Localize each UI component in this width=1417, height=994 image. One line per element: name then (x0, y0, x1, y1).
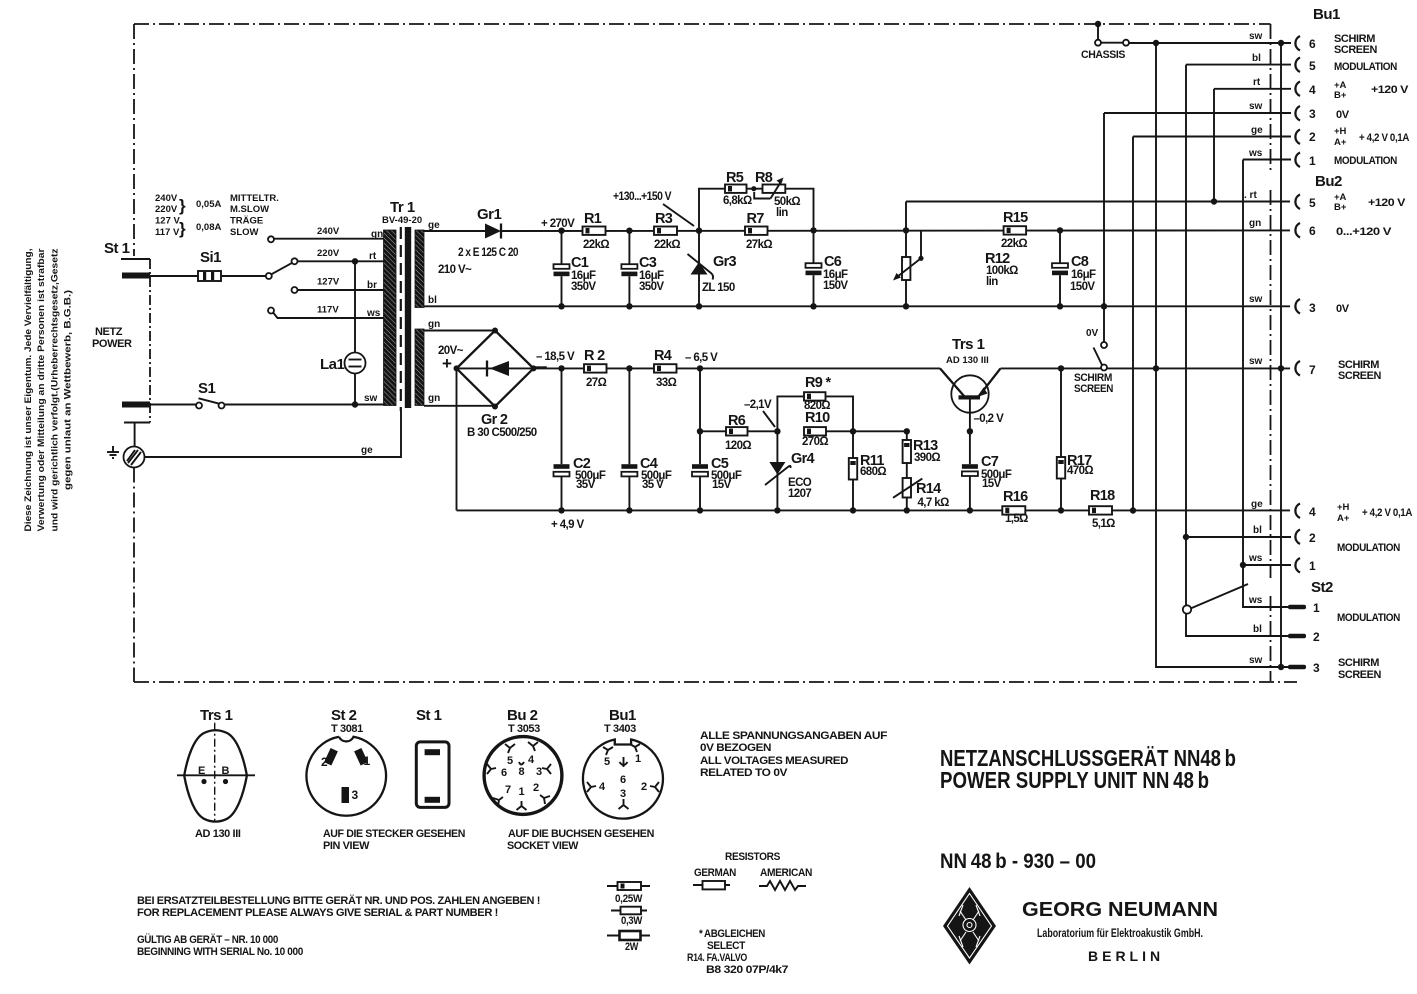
frame top dash-dot border (134, 23, 1271, 25)
svg-text:R14: R14 (916, 481, 941, 497)
svg-text:POWER SUPPLY UNIT NN 48 b: POWER SUPPLY UNIT NN 48 b (940, 767, 1209, 793)
Tr1 secondary winding 20V (415, 329, 424, 406)
svg-text:AD 130 III: AD 130 III (195, 828, 241, 840)
svg-text:bl: bl (1252, 53, 1261, 64)
svg-text:+130...+150 V: +130...+150 V (613, 191, 672, 203)
svg-text:SELECT: SELECT (707, 940, 746, 952)
svg-text:ge: ge (361, 445, 373, 456)
svg-text:Gr 2: Gr 2 (481, 412, 508, 428)
svg-text:ALL VOLTAGES MEASURED: ALL VOLTAGES MEASURED (700, 755, 848, 767)
sw bus vertical (0V) (1103, 113, 1105, 342)
resistor R6 120ohm (697, 428, 703, 434)
svg-text:240V: 240V (317, 226, 340, 237)
svg-text:0V BEZOGEN: 0V BEZOGEN (700, 742, 771, 754)
svg-text:Verwertung oder Mitteilung an: Verwertung oder Mitteilung an dritte Per… (36, 248, 47, 531)
svg-text:– 6,5 V: – 6,5 V (685, 352, 718, 364)
svg-text:NETZ: NETZ (95, 326, 123, 338)
svg-text:6,8kΩ: 6,8kΩ (723, 195, 752, 207)
svg-text:BEGINNING WITH SERIAL No. 1: BEGINNING WITH SERIAL No. 10 000 (137, 946, 303, 958)
svg-text:BEI ERSATZTEILBESTELLUNG BI: BEI ERSATZTEILBESTELLUNG BITTE GERÄT NR.… (137, 894, 540, 907)
svg-text:St2: St2 (1311, 579, 1333, 596)
svg-text:–2,1V: –2,1V (744, 399, 772, 411)
bl bus vertical (1186, 65, 1291, 636)
svg-text:22kΩ: 22kΩ (654, 239, 680, 251)
resistor R13 390ohm (904, 428, 910, 434)
svg-text:MODULATION: MODULATION (1334, 155, 1397, 167)
tap 240V (268, 236, 274, 242)
svg-text:210 V~: 210 V~ (438, 264, 472, 276)
svg-text:R9 *: R9 * (805, 375, 831, 391)
svg-text:R 2: R 2 (584, 348, 605, 364)
svg-text:Gr1: Gr1 (477, 206, 502, 223)
resistor R1 22k (583, 227, 606, 235)
svg-text:470Ω: 470Ω (1067, 465, 1093, 477)
svg-text:0V: 0V (1336, 109, 1350, 121)
svg-text:4: 4 (528, 754, 535, 766)
svg-text:3: 3 (1313, 661, 1320, 675)
svg-text:RELATED TO 0V: RELATED TO 0V (700, 767, 788, 779)
svg-text:ws: ws (366, 308, 381, 319)
svg-text:R18: R18 (1090, 488, 1115, 504)
svg-text:5: 5 (604, 756, 610, 768)
svg-text:3: 3 (1309, 107, 1316, 121)
svg-text:+: + (442, 354, 452, 373)
svg-text:33Ω: 33Ω (656, 377, 677, 389)
Tr1 electrostatic screen (dashed core line) (400, 227, 402, 411)
Neumann logo diamond (943, 887, 996, 965)
svg-text:R8: R8 (755, 170, 773, 186)
svg-text:2: 2 (641, 781, 647, 793)
svg-text:GEORG NEUMANN: GEORG NEUMANN (1022, 899, 1218, 921)
wires 20V secondary to bridge (424, 330, 495, 332)
capacitor C8 (1057, 227, 1063, 233)
svg-text:PIN VIEW: PIN VIEW (323, 840, 370, 852)
rt bus vertical (1213, 89, 1215, 202)
svg-text:+120 V: +120 V (1368, 197, 1406, 209)
svg-text:SCREEN: SCREEN (1334, 44, 1377, 56)
svg-text:Bu 2: Bu 2 (507, 707, 538, 724)
svg-text:}: } (179, 219, 186, 238)
-18,5V rail to R2 (534, 367, 585, 369)
svg-text:8: 8 (519, 766, 525, 778)
svg-text:6: 6 (620, 774, 626, 786)
svg-text:0,08A: 0,08A (196, 222, 221, 233)
svg-text:A+: A+ (1334, 137, 1347, 148)
svg-text:SCREEN: SCREEN (1074, 383, 1113, 395)
svg-text:35V: 35V (576, 479, 596, 491)
wire Bu2 pin7 screen row (1278, 365, 1284, 371)
svg-text:220V: 220V (317, 248, 340, 259)
svg-text:2W: 2W (625, 941, 639, 953)
svg-text:350V: 350V (639, 281, 664, 293)
svg-text:TRÄGE: TRÄGE (230, 216, 263, 227)
svg-text:R10: R10 (805, 410, 830, 426)
wire chassis to Bu1 pin6 (1129, 42, 1291, 44)
svg-text:gegen unlaut an Wettbewerb,: gegen unlaut an Wettbewerb, B.G.B.) (63, 290, 74, 490)
svg-text:15V: 15V (712, 479, 732, 491)
potentiometer R12 100k lin (905, 202, 907, 258)
capacitor C1 (558, 228, 564, 234)
svg-text:SCREEN: SCREEN (1338, 370, 1381, 382)
ground symbol and earth connection (124, 447, 145, 468)
svg-text:POWER: POWER (92, 338, 132, 350)
capacitor C4 (626, 365, 632, 371)
svg-text:3: 3 (1309, 301, 1316, 315)
svg-text:27Ω: 27Ω (586, 377, 607, 389)
svg-text:sw: sw (1249, 101, 1263, 112)
svg-text:und wird gerichtlich verfolgt.: und wird gerichtlich verfolgt.(Urheberre… (50, 248, 61, 531)
svg-text:La1: La1 (320, 356, 345, 373)
svg-text:ZL 150: ZL 150 (702, 282, 735, 294)
svg-text:MODULATION: MODULATION (1337, 542, 1400, 554)
svg-text:NN 48 b - 930 – 00: NN 48 b - 930 – 00 (940, 850, 1096, 873)
svg-text:}: } (179, 196, 186, 215)
svg-text:br: br (367, 280, 377, 291)
svg-text:sw: sw (1249, 294, 1263, 305)
svg-text:Laboratorium für Elektroakusti: Laboratorium für Elektroakustik GmbH. (1037, 928, 1203, 940)
svg-text:R6: R6 (728, 413, 746, 429)
svg-text:lin: lin (776, 207, 788, 219)
zener Gr3 ZL150 (696, 228, 702, 234)
svg-text:St 2: St 2 (331, 707, 357, 724)
svg-text:1: 1 (1313, 601, 1320, 615)
svg-text:C8: C8 (1071, 254, 1089, 270)
svg-text:+ 270V: + 270V (541, 218, 575, 230)
capacitor C2 (558, 365, 564, 371)
resistor R15 22k (1004, 226, 1027, 234)
svg-text:127V: 127V (317, 277, 340, 288)
svg-text:lin: lin (986, 276, 998, 288)
svg-text:0V: 0V (1086, 328, 1099, 339)
svg-text:GERMAN: GERMAN (694, 867, 736, 879)
svg-text:0,25W: 0,25W (615, 893, 643, 905)
svg-text:Tr 1: Tr 1 (390, 199, 415, 216)
svg-text:SCHIRM: SCHIRM (1338, 657, 1379, 669)
svg-text:7: 7 (1309, 363, 1316, 377)
svg-text:1: 1 (635, 753, 641, 765)
frame left dash-dot border lower (133, 468, 135, 683)
svg-text:ALLE SPANNUNGSANGABEN AUF: ALLE SPANNUNGSANGABEN AUF (700, 730, 888, 742)
svg-text:C3: C3 (639, 255, 657, 271)
svg-text:ws: ws (1248, 553, 1263, 564)
svg-text:3: 3 (352, 788, 359, 802)
bridge rectifier Gr2 B30 C500/250 (457, 331, 534, 407)
connector boundary dash-dot St2 (1270, 596, 1272, 681)
svg-text:Trs 1: Trs 1 (952, 336, 985, 353)
svg-text:R14. FA.VALVO: R14. FA.VALVO (687, 952, 748, 964)
svg-text:5: 5 (507, 755, 513, 767)
svg-text:Gr3: Gr3 (713, 254, 737, 270)
wire ge from earth to transformer screen (145, 411, 402, 457)
wire Bu2 pin1 (1243, 564, 1291, 566)
svg-text:2: 2 (1313, 630, 1320, 644)
connector boundary dash-dot Bu2 (1270, 190, 1272, 578)
svg-text:gn: gn (1249, 218, 1261, 229)
svg-text:+ 4,9 V: + 4,9 V (551, 519, 584, 531)
+4,9V rail (457, 509, 1291, 511)
svg-text:AD 130 III: AD 130 III (946, 355, 989, 366)
svg-text:150V: 150V (823, 280, 848, 292)
wire sw to Bu1 pin3 0V (1104, 112, 1291, 114)
svg-text:35 V: 35 V (642, 479, 664, 491)
resistor wattage legend (607, 885, 650, 887)
svg-text:ws: ws (1248, 148, 1263, 159)
svg-text:+ 4,2 V 0,1A: + 4,2 V 0,1A (1362, 507, 1412, 519)
svg-text:117V: 117V (317, 305, 339, 316)
svg-text:sw: sw (1249, 31, 1263, 42)
frame left dash-dot border upper (133, 24, 135, 256)
svg-text:B+: B+ (1334, 202, 1347, 213)
svg-text:127 V: 127 V (155, 216, 180, 227)
svg-text:gn: gn (371, 229, 383, 240)
svg-text:6: 6 (1309, 37, 1316, 51)
svg-text:T 3403: T 3403 (604, 723, 636, 735)
resistor R4 33ohm (654, 364, 677, 372)
wire colour labels right side (1244, 31, 1263, 666)
svg-text:Trs 1: Trs 1 (200, 707, 233, 724)
svg-text:bl: bl (1253, 525, 1262, 536)
svg-text:A+: A+ (1337, 513, 1350, 524)
resistor R17 470ohm (1058, 365, 1064, 371)
chassis switch (1095, 21, 1101, 27)
svg-text:117 V: 117 V (155, 227, 180, 238)
voltage rating table (155, 193, 279, 238)
resistor R2 27ohm (584, 364, 607, 372)
svg-text:270Ω: 270Ω (802, 436, 828, 448)
svg-text:SLOW: SLOW (230, 227, 259, 238)
sw chassis bus vertical (1156, 43, 1291, 667)
svg-text:C7: C7 (981, 454, 999, 470)
svg-text:350V: 350V (571, 281, 596, 293)
Tr1 secondary winding 210V (415, 230, 424, 308)
note voltages (700, 730, 888, 779)
svg-text:R3: R3 (655, 211, 673, 227)
svg-text:4,7 kΩ: 4,7 kΩ (918, 497, 950, 509)
wire rt to Bu1 pin4 (1214, 88, 1291, 90)
screen bus solid vertical (1280, 43, 1282, 667)
svg-text:0,3W: 0,3W (621, 915, 643, 927)
svg-text:1: 1 (1309, 559, 1316, 573)
svg-text:5: 5 (1309, 196, 1316, 210)
svg-text:AUF DIE STECKER GESEHEN: AUF DIE STECKER GESEHEN (323, 828, 465, 840)
connector boundary dash-dot Bu1 (1270, 24, 1272, 171)
svg-text:–0,2 V: –0,2 V (974, 413, 1005, 425)
svg-text:rt: rt (369, 251, 377, 262)
svg-text:6: 6 (1309, 224, 1316, 238)
svg-text:AUF DIE BUCHSEN GESEHEN: AUF DIE BUCHSEN GESEHEN (508, 828, 654, 840)
svg-text:7: 7 (505, 784, 511, 796)
svg-text:ge: ge (1251, 125, 1263, 136)
svg-text:Diese Zeichnung ist unser Eige: Diese Zeichnung ist unser Eigentum. Jede… (23, 248, 34, 531)
svg-text:T 3081: T 3081 (331, 723, 363, 735)
svg-text:S1: S1 (198, 380, 216, 397)
+120V line from R12 top to Bu2 pin 5 (906, 201, 1290, 203)
svg-text:120Ω: 120Ω (725, 440, 751, 452)
R5/R8 branch over R7 (699, 189, 725, 231)
note select (687, 928, 788, 976)
svg-text:0V: 0V (1336, 303, 1350, 315)
svg-text:E: E (198, 765, 205, 777)
svg-text:4: 4 (599, 781, 606, 793)
svg-text:B: B (222, 765, 230, 777)
R9/R10 parallel pair (774, 428, 780, 434)
svg-text:rt: rt (1253, 77, 1261, 88)
copyright notice rotated text (23, 248, 74, 531)
svg-text:RESISTORS: RESISTORS (725, 851, 780, 863)
svg-text:1: 1 (519, 786, 525, 798)
resistor R7 27k (745, 227, 768, 235)
svg-text:680Ω: 680Ω (860, 466, 886, 478)
svg-text:bl: bl (1253, 624, 1262, 635)
svg-text:sw: sw (1249, 356, 1263, 367)
potentiometer R8 50k lin (763, 185, 786, 193)
svg-text:1,5Ω: 1,5Ω (1005, 513, 1028, 525)
wire ge to Bu1 pin2 (1133, 136, 1291, 138)
resistor R18 5,1ohm (1089, 506, 1112, 514)
svg-text:0...+120 V: 0...+120 V (1336, 226, 1392, 238)
Tr1 core bar (405, 227, 411, 408)
svg-text:MODULATION: MODULATION (1337, 612, 1400, 624)
capacitor C3 (626, 228, 632, 234)
svg-text:4: 4 (1309, 83, 1316, 97)
svg-text:MODULATION: MODULATION (1334, 61, 1397, 73)
svg-text:GÜLTIG AB GERÄT – NR. 10 000: GÜLTIG AB GERÄT – NR. 10 000 (137, 933, 278, 946)
wire 210V secondary top to Gr1 (424, 230, 485, 232)
svg-text:2 x E 125 C 20: 2 x E 125 C 20 (458, 247, 518, 259)
svg-text:2: 2 (533, 782, 539, 794)
svg-text:+H: +H (1334, 126, 1347, 137)
svg-text:* ABGLEICHEN: * ABGLEICHEN (699, 928, 765, 940)
svg-text:SOCKET VIEW: SOCKET VIEW (507, 840, 579, 852)
ws bus vertical (1243, 160, 1291, 608)
wire ws to Bu1 pin1 (1243, 159, 1291, 161)
svg-text:+120 V: +120 V (1371, 84, 1409, 96)
svg-text:5: 5 (1309, 59, 1316, 73)
svg-text:Bu1: Bu1 (1313, 6, 1340, 23)
svg-text:R1: R1 (584, 211, 602, 227)
svg-text:5,1Ω: 5,1Ω (1092, 518, 1115, 530)
svg-text:390Ω: 390Ω (914, 452, 940, 464)
svg-text:4: 4 (1309, 505, 1316, 519)
svg-text:R16: R16 (1003, 489, 1028, 505)
tap 220V (292, 258, 298, 264)
svg-text:ge: ge (1251, 499, 1263, 510)
svg-text:. rt: . rt (1244, 190, 1257, 201)
svg-text:gn: gn (428, 319, 440, 330)
svg-text:Bu1: Bu1 (609, 707, 636, 724)
note replacement (137, 894, 540, 958)
capacitor C5 (697, 365, 703, 371)
resistor R3 22k (654, 227, 677, 235)
emitter line to screen switch (1001, 367, 1291, 369)
capacitor C7 (967, 428, 973, 434)
svg-text:C1: C1 (571, 255, 589, 271)
svg-text:BV-49-20: BV-49-20 (382, 215, 422, 226)
svg-text:R5: R5 (726, 170, 744, 186)
svg-text:Bu2: Bu2 (1315, 173, 1342, 190)
svg-text:150V: 150V (1070, 281, 1095, 293)
svg-text:6: 6 (501, 767, 507, 779)
tap 127V (292, 287, 298, 293)
svg-text:CHASSIS: CHASSIS (1081, 49, 1125, 61)
svg-text:B+: B+ (1334, 90, 1347, 101)
cable pigtail marker (1191, 584, 1249, 609)
tap 117V (268, 308, 274, 314)
svg-text:FOR REPLACEMENT PLEASE: FOR REPLACEMENT PLEASE ALWAYS GIVE SERIA… (137, 907, 498, 919)
svg-text:16μF: 16μF (1071, 269, 1096, 281)
svg-text:+ 4,2 V 0,1A: + 4,2 V 0,1A (1359, 132, 1409, 144)
svg-text:1: 1 (364, 754, 371, 768)
svg-text:15V: 15V (982, 478, 1002, 490)
svg-text:AMERICAN: AMERICAN (760, 867, 812, 879)
svg-text:bl: bl (428, 295, 437, 306)
svg-text:SCREEN: SCREEN (1338, 669, 1381, 681)
svg-text:+H: +H (1337, 502, 1350, 513)
ge bus vertical (1132, 137, 1134, 511)
resistor R16 1,5ohm (1002, 506, 1025, 514)
svg-text:R7: R7 (747, 211, 765, 227)
wire Bu2 pin2 (1186, 536, 1291, 538)
svg-text:22kΩ: 22kΩ (1001, 238, 1027, 250)
svg-text:3: 3 (536, 766, 542, 778)
svg-text:––: –– (535, 361, 548, 373)
svg-text:C6: C6 (824, 254, 842, 270)
svg-text:St 1: St 1 (104, 240, 130, 257)
svg-text:240V: 240V (155, 193, 178, 204)
svg-text:1207: 1207 (788, 488, 811, 500)
svg-text:ws: ws (1248, 595, 1263, 606)
wire to Bu2 pin4 +H (1130, 507, 1136, 513)
svg-text:T 3053: T 3053 (508, 723, 540, 735)
voltage selector switch (221, 275, 266, 277)
svg-text:ge: ge (428, 220, 440, 231)
svg-text:2: 2 (321, 755, 328, 769)
svg-text:R15: R15 (1003, 210, 1028, 226)
capacitor C6 (810, 227, 816, 233)
top +270V rail (501, 229, 1290, 232)
zener Gr4 ECO1207 (776, 431, 778, 510)
resistor R11 680ohm (850, 428, 856, 434)
svg-text:1: 1 (1309, 154, 1316, 168)
svg-text:22kΩ: 22kΩ (583, 239, 609, 251)
svg-text:sw: sw (364, 393, 378, 404)
positive lead down from bridge to +4,9V rail (456, 368, 458, 510)
svg-text:gn: gn (428, 393, 440, 404)
svg-text:B 30 C500/250: B 30 C500/250 (467, 427, 537, 439)
svg-text:St 1: St 1 (416, 707, 442, 724)
svg-text:2: 2 (1309, 130, 1316, 144)
svg-text:2: 2 (1309, 531, 1316, 545)
trimmer R14 4,7k (906, 463, 908, 478)
svg-text:0,05A: 0,05A (196, 199, 221, 210)
svg-text:M.SLOW: M.SLOW (230, 204, 269, 215)
svg-text:BERLIN: BERLIN (1088, 948, 1164, 964)
0V return rail (bl) (424, 305, 1290, 307)
svg-text:27kΩ: 27kΩ (746, 239, 772, 251)
svg-text:220V: 220V (155, 204, 178, 215)
svg-text:sw: sw (1249, 655, 1263, 666)
svg-text:Gr4: Gr4 (791, 451, 815, 467)
svg-text:3: 3 (620, 788, 626, 800)
svg-text:Si1: Si1 (200, 249, 221, 266)
svg-text:R4: R4 (654, 348, 672, 364)
wire bl to Bu1 pin5 (1186, 64, 1291, 66)
svg-text:MITTELTR.: MITTELTR. (230, 193, 279, 204)
svg-text:B8 320 07P/4k7: B8 320 07P/4k7 (706, 964, 788, 976)
Tr1 primary winding (384, 230, 397, 406)
frame bottom dash-dot border (134, 681, 1297, 683)
